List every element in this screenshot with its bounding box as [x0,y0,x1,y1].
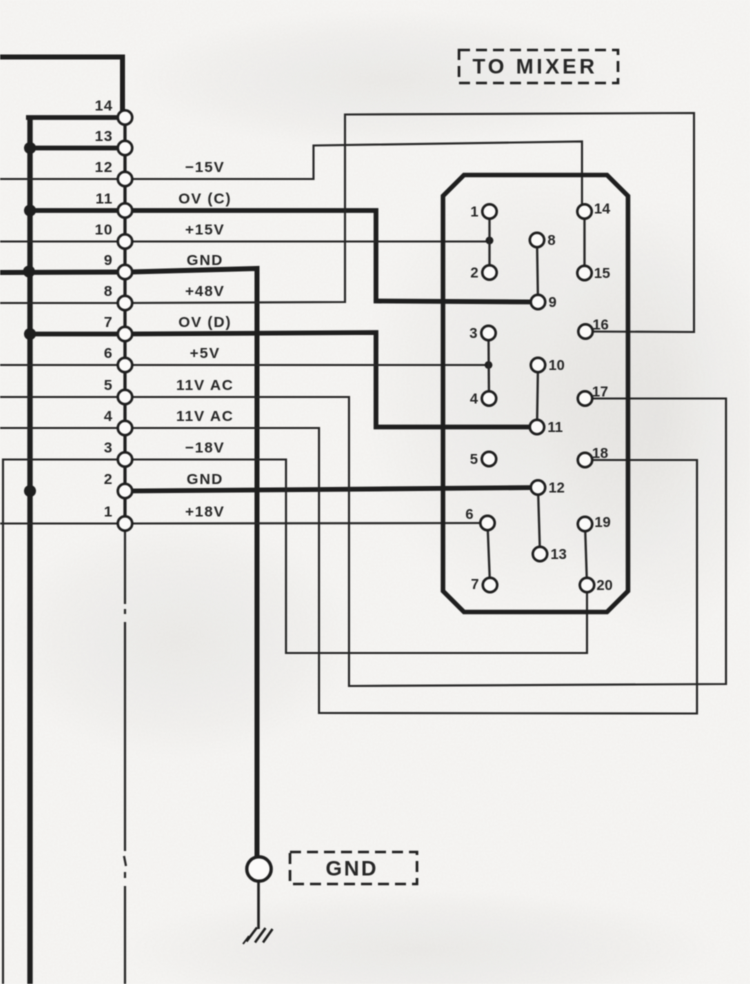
svg-text:5: 5 [470,452,478,468]
wire +15V feed terminal 10 (left edge) [0,240,125,242]
label box TO MIXER [459,50,618,83]
wire terminal 7 stub to bus [27,332,125,337]
svg-text:+5V: +5V [190,345,220,362]
wire 11V AC feed terminal 4 (left edge) [0,427,125,429]
mixer connector pin 17 [578,391,592,405]
mixer connector pin 12 [531,480,545,494]
terminal 11 pad circle [118,203,132,217]
mixer connector pin 14 [577,204,591,218]
wire +18V feed terminal 1 (left edge) [0,522,125,524]
wire +15V terminal 10 to mixer pins 1-2 [125,240,490,242]
svg-text:TO MIXER: TO MIXER [472,56,597,79]
wire link mixer pin 10 to pin 11 [537,365,538,427]
mixer connector pin 5 [482,452,496,466]
svg-text:13: 13 [95,128,113,145]
svg-text:16: 16 [593,318,609,334]
svg-text:15: 15 [594,266,610,282]
wire +48V feed terminal 8 (left edge) [0,302,125,304]
svg-text:9: 9 [104,252,113,269]
wire +5V feed terminal 6 (left edge) [0,364,125,366]
svg-text:10: 10 [95,222,113,239]
junction bus / terminal 2 GND row [24,485,36,497]
svg-text:6: 6 [104,345,113,362]
mixer connector pin 8 [530,233,544,247]
svg-text:1: 1 [104,504,113,521]
svg-text:20: 20 [597,578,613,594]
mixer connector pin 11 [530,420,544,434]
terminal 13 pad circle [118,141,132,155]
svg-text:8: 8 [104,283,113,300]
label box GND [290,852,417,884]
terminal 6 pad circle [118,358,132,372]
mixer connector pin 16 [578,324,592,338]
mixer connector pin 9 [531,295,545,309]
terminal 4 pad circle [118,421,132,435]
wire GND terminal 9 heavy run from left edge to vertical drop [0,269,257,857]
svg-text:12: 12 [95,159,113,176]
svg-text:17: 17 [592,385,608,401]
terminal 9 pad circle [118,265,132,279]
mixer connector pin 2 [482,265,496,279]
terminal 8 pad circle [118,296,132,310]
svg-text:GND: GND [187,471,224,488]
terminal strip column line (lower continuation to bottom edge) [124,524,126,605]
terminal strip column break tick 2 [124,856,126,866]
wire link mixer pin 12 to pin 13 [538,488,540,555]
mixer connector pin 3 [481,326,495,340]
wire terminal 13 to bus [27,146,125,151]
svg-text:2: 2 [104,471,113,488]
svg-text:7: 7 [104,314,113,331]
svg-text:4: 4 [470,392,478,408]
terminal 3 pad circle [118,452,132,466]
mixer connector pin 18 [578,453,592,467]
junction bus / terminal 13 [24,142,36,154]
mixer connector pin 6 [480,516,494,530]
svg-text:6: 6 [465,507,473,523]
wire -15V feed terminal 12 (left edge) [0,178,125,180]
wire OV (D) terminal 7 to mixer pin 11 [125,333,537,428]
svg-text:14: 14 [594,202,610,218]
wire terminal 11 stub to bus [27,208,125,213]
svg-text:10: 10 [549,358,565,374]
mixer connector pin 20 [580,578,594,592]
svg-text:2: 2 [470,266,478,282]
wire 11V AC feed terminal 5 (left edge) [0,396,125,398]
svg-text:9: 9 [549,295,557,311]
wire link mixer pin 19 to pin 20 [585,524,587,585]
wire GND terminal 2 to mixer pin 12 [125,488,538,492]
svg-text:4: 4 [104,408,113,425]
junction bus / terminal 11 [24,205,36,217]
svg-text:3: 3 [104,440,113,457]
svg-text:OV (C): OV (C) [178,191,231,208]
wire top feed to terminal 14 (from left edge) [0,57,123,112]
junction mixer pins 1-2 link / +15V feed [486,237,494,245]
svg-text:19: 19 [595,515,611,531]
wire link mixer pin 8 to pin 9 [537,240,538,302]
wire +48V terminal 8 to mixer pin 16 [125,113,694,332]
mixer connector pin 13 [533,547,547,561]
wire link mixer pin 6 to pin 7 [488,523,491,585]
svg-text:11V AC: 11V AC [176,377,234,394]
wire link mixer pin 14 to pin 15 [583,212,585,274]
svg-text:5: 5 [104,377,113,394]
svg-text:11: 11 [548,420,563,436]
terminal 10 pad circle [118,234,132,248]
wire link mixer pin 3 to pin 4 [487,333,490,399]
svg-text:3: 3 [469,326,477,342]
svg-text:GND: GND [187,252,224,269]
svg-text:8: 8 [548,233,556,249]
wire terminal 14 to bus [26,115,125,120]
svg-text:GND: GND [326,858,379,881]
terminal 12 pad circle [118,172,132,186]
junction mixer pins 3-4 link / +5V feed [485,361,493,369]
bus GND-left vertical at x=30 [27,116,32,984]
wire 11V AC terminal 4 to mixer pin 18 [125,428,697,714]
terminal 5 pad circle [118,390,132,404]
junction bus / terminal 9 GND row [23,266,35,278]
connector J1 TO MIXER outline [443,175,628,612]
svg-text:11V AC: 11V AC [176,408,234,425]
mixer connector pin 4 [482,391,496,405]
terminal 2 pad circle [118,484,132,498]
terminal strip column break tick 1 [124,609,126,614]
terminal 14 pad circle [118,110,132,124]
mixer connector pin 15 [577,266,591,280]
wire +18V terminal 1 to mixer pin 6 [125,522,488,525]
svg-text:−15V: −15V [185,159,225,176]
wire +5V terminal 6 to mixer pins 3-4 [125,364,489,366]
wire -18V terminal 3 to mixer pin 20 [125,460,587,654]
wire OV (C) terminal 11 to mixer pin 9 [125,211,538,303]
svg-text:OV (D): OV (D) [178,314,231,331]
svg-text:+15V: +15V [185,222,225,239]
wire link mixer pin 1 to pin 2 [488,212,490,273]
terminal 1 pad circle [118,516,132,530]
ground terminal circle [247,857,271,881]
mixer connector pin 19 [578,517,592,531]
svg-text:11: 11 [96,191,113,208]
earth ground symbol hatches [247,928,258,942]
svg-text:+48V: +48V [185,283,225,300]
terminal 7 pad circle [118,327,132,341]
svg-text:13: 13 [551,547,567,563]
mixer connector pin 1 [482,204,496,218]
svg-text:1: 1 [470,205,478,221]
svg-text:18: 18 [592,446,608,462]
svg-text:−18V: −18V [185,440,225,457]
svg-text:12: 12 [549,481,565,497]
svg-text:14: 14 [95,98,113,115]
terminal strip column line (upper, through terminals 14-1) [123,112,126,524]
wire -15V terminal 12 to mixer pin 14 [125,142,582,212]
wire 11V AC terminal 5 to mixer pin 17 [125,397,726,686]
mixer connector pin 10 [531,358,545,372]
junction bus / terminal 7 [24,328,36,340]
svg-text:7: 7 [471,577,479,593]
wire ground circle to earth symbol [257,882,260,930]
svg-text:+18V: +18V [185,504,225,521]
mixer connector pin 7 [483,578,497,592]
wire -18V feed terminal 3 with drop to bottom edge at x=3 [3,460,125,984]
